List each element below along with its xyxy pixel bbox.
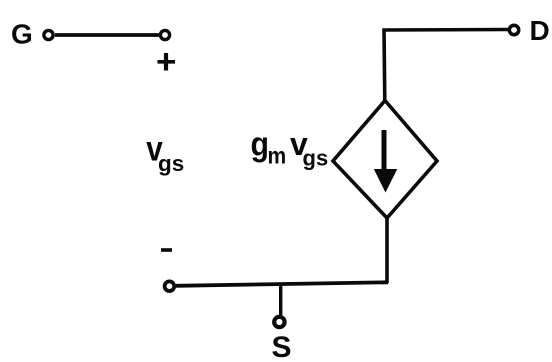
svg-text:g: g <box>251 126 270 164</box>
svg-text:G: G <box>11 19 33 50</box>
label plus <box>158 53 176 71</box>
svg-text:S: S <box>272 331 292 362</box>
label vgs <box>146 130 184 177</box>
label minus <box>161 248 172 252</box>
wire <box>385 217 389 283</box>
wire <box>176 282 388 286</box>
wire <box>55 33 159 37</box>
svg-text:D: D <box>530 15 550 46</box>
svg-text:gs: gs <box>158 151 184 176</box>
wire <box>382 29 386 102</box>
svg-text:m: m <box>268 142 287 168</box>
terminal G <box>44 30 53 39</box>
current source gmvgs <box>333 101 437 219</box>
terminal vgs plus <box>160 30 169 39</box>
wire <box>383 28 510 32</box>
label gmvgs <box>251 126 329 171</box>
terminal D <box>509 25 518 34</box>
terminal S <box>274 317 284 327</box>
svg-text:gs: gs <box>303 146 329 171</box>
terminal vgs minus <box>165 281 175 291</box>
wire <box>279 284 282 315</box>
